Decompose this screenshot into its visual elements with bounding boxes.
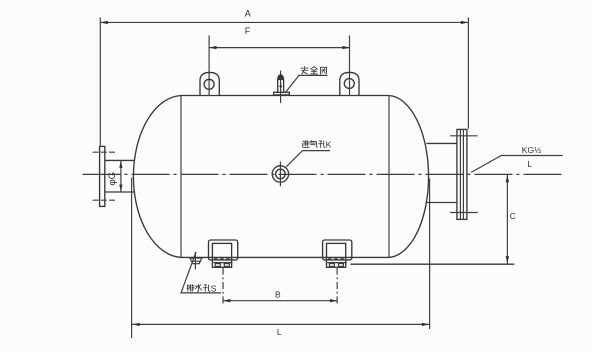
label 进气孔K text <box>302 141 325 148</box>
drain fitting S <box>189 252 203 269</box>
label KG1/2 leader <box>471 156 563 173</box>
left flange bolt line top <box>93 151 116 153</box>
left elliptical head <box>133 96 181 258</box>
dimension L (overall) <box>132 178 430 339</box>
label 排水孔S leader <box>181 252 221 293</box>
leg 1 centerline <box>222 268 224 304</box>
safety valve U1 <box>274 71 290 104</box>
left nozzle pipe <box>105 159 134 161</box>
dimension A <box>100 9 468 146</box>
lifting lug 1 <box>200 72 219 95</box>
right elliptical head <box>389 96 429 258</box>
wire: extension line through lug 1 <box>208 36 210 96</box>
svg-text:K: K <box>326 139 332 149</box>
label 排水孔S text <box>187 284 210 291</box>
vessel shell top line <box>181 95 389 97</box>
leg 2 centerline <box>336 268 338 306</box>
right head tangent line <box>388 96 390 258</box>
dimension phi-G (pipe bore) <box>107 160 122 192</box>
dimension F <box>209 26 350 50</box>
right flange bolt line top <box>450 135 478 137</box>
ground reference line for C <box>351 263 515 265</box>
svg-text:F: F <box>245 26 251 36</box>
support leg 2 <box>323 240 352 267</box>
svg-text:KG½: KG½ <box>522 145 541 155</box>
label 安全阀 leader <box>285 75 328 93</box>
svg-text:L: L <box>277 327 282 337</box>
right nozzle pipe <box>426 142 457 144</box>
left flange bolt line bottom <box>93 199 116 201</box>
label 进气孔K leader <box>286 151 330 167</box>
lifting lug 2 <box>340 72 359 95</box>
right flange bolt line bottom <box>450 212 478 214</box>
svg-text:S: S <box>211 284 217 294</box>
svg-text:A: A <box>245 9 251 19</box>
label 安全阀 text <box>301 67 327 75</box>
svg-text:C: C <box>510 211 516 221</box>
right nozzle flange pair <box>457 129 467 219</box>
dimension B <box>223 289 338 302</box>
left nozzle flange <box>100 146 105 206</box>
dimension C <box>506 175 516 264</box>
svg-text:L: L <box>527 159 532 169</box>
svg-text:φG: φG <box>107 172 118 186</box>
wire: extension line through lug 2 <box>349 36 351 96</box>
left head tangent line <box>180 96 182 258</box>
wire: main horizontal centerline of vessel <box>83 173 564 175</box>
support leg 1 <box>209 240 238 267</box>
vessel shell bottom line <box>181 256 389 258</box>
svg-text:B: B <box>275 289 281 299</box>
intake nozzle K (front circle) <box>272 162 288 187</box>
